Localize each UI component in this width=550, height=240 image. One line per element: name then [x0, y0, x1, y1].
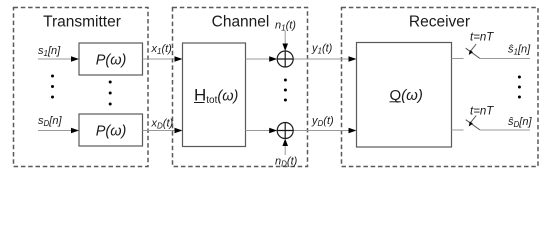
svg-text:Receiver: Receiver	[409, 14, 470, 31]
svg-text:x1(t): x1(t)	[151, 43, 173, 56]
svg-text:sD[n]: sD[n]	[38, 115, 62, 128]
svg-text:xD(t): xD(t)	[151, 118, 174, 131]
svg-text:y1(t): y1(t)	[311, 43, 333, 56]
svg-text:t=nT: t=nT	[470, 32, 494, 44]
svg-text:ŝD[n]: ŝD[n]	[508, 116, 532, 129]
svg-text:Transmitter: Transmitter	[43, 14, 121, 31]
svg-text:t=nT: t=nT	[470, 106, 494, 118]
svg-text:P(ω): P(ω)	[96, 53, 127, 69]
svg-text:ŝ1[n]: ŝ1[n]	[508, 44, 531, 57]
svg-text:yD(t): yD(t)	[311, 115, 334, 128]
svg-text:P(ω): P(ω)	[96, 124, 127, 140]
svg-text:nD(t): nD(t)	[275, 156, 298, 169]
svg-text:s1[n]: s1[n]	[38, 45, 61, 58]
svg-text:n1(t): n1(t)	[275, 20, 296, 33]
svg-text:Channel: Channel	[212, 14, 270, 31]
